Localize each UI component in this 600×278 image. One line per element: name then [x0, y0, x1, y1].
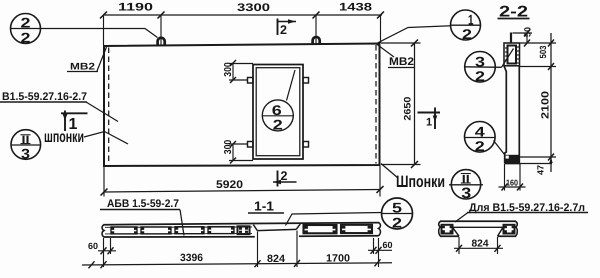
section mark 1 (left) [61, 111, 88, 134]
leader from section to balloon 5/2 [286, 213, 382, 226]
right end cap [516, 221, 518, 236]
svg-text:шпонки: шпонки [44, 129, 84, 146]
dimension 160 [499, 164, 526, 191]
svg-text:5920: 5920 [216, 179, 243, 191]
door recess right slant [296, 224, 300, 230]
svg-text:3396: 3396 [180, 252, 203, 264]
embedded detail bottom [505, 155, 520, 164]
embedded detail top (MV2) [504, 43, 520, 66]
door recess bottom (strip) [257, 229, 296, 230]
svg-text:50: 50 [523, 27, 533, 37]
right slant [498, 227, 504, 236]
left slant [453, 227, 460, 236]
dimension 5920 bottom [101, 166, 384, 197]
svg-text:2: 2 [273, 117, 283, 133]
loop pin top [510, 33, 512, 44]
svg-text:300: 300 [223, 62, 234, 77]
dimension 60 left [88, 238, 116, 267]
svg-text:1-1: 1-1 [254, 199, 274, 214]
right end cap [379, 223, 381, 236]
section mark 2 (bottom) [273, 169, 297, 187]
svg-text:503: 503 [538, 46, 548, 59]
svg-text:2: 2 [392, 215, 402, 231]
void cell 2 [141, 227, 171, 234]
embedded tab top-right [303, 78, 309, 84]
section mark 2 (top) [278, 19, 297, 38]
svg-text:1190: 1190 [118, 2, 153, 14]
svg-text:4: 4 [475, 123, 485, 139]
section 2-2 bar body [504, 66, 520, 164]
void cell 7 (right segment) [341, 225, 372, 233]
tick marks [100, 12, 107, 19]
right vertical dimension chain 503/2100/47 [520, 33, 556, 175]
svg-text:Шпонки: Шпонки [396, 173, 445, 191]
void cell 5 (solid end) [238, 226, 250, 234]
detail body [439, 221, 518, 236]
balloon 6/2 in opening [262, 100, 294, 133]
leader from panel corner to balloon 1/2 [377, 26, 452, 44]
svg-text:2: 2 [462, 26, 472, 42]
extension line right [380, 15, 382, 43]
left segment bottom [104, 236, 255, 238]
extension line loop2 [315, 15, 317, 45]
svg-text:3: 3 [21, 146, 30, 162]
left end cap [102, 225, 104, 237]
label MB2 right [377, 44, 416, 68]
svg-text:824: 824 [267, 253, 285, 265]
embedded tab top-left [248, 78, 254, 84]
balloon 5/2 [382, 198, 413, 231]
label Dlya B1.5-59.27.16-2.7l [455, 202, 588, 222]
svg-text:2: 2 [21, 15, 31, 31]
svg-text:3: 3 [461, 185, 471, 202]
void cell 3 [175, 227, 204, 234]
dimension 300 top [223, 60, 253, 83]
balloon 3/2 [465, 52, 502, 84]
svg-text:47: 47 [536, 165, 546, 175]
dimension 300 bottom [223, 139, 253, 163]
balloon II/3 left [11, 130, 41, 162]
top face line [104, 223, 380, 225]
section mark 1 (right) [418, 108, 441, 130]
dimension 60 right [368, 238, 393, 267]
left end cap [439, 221, 441, 236]
dashed line inside right edge [375, 45, 377, 164]
svg-text:2100: 2100 [540, 91, 552, 119]
dimension 2650 right [381, 40, 421, 169]
right cell [504, 225, 515, 234]
void cell 1 [111, 227, 137, 234]
svg-text:3: 3 [475, 53, 485, 69]
void cell 6 (right segment) [304, 225, 337, 233]
dashed line inside left edge [108, 48, 110, 165]
top dimension line [100, 2, 384, 46]
balloon 1/2 top-right [451, 10, 481, 42]
svg-text:3300: 3300 [237, 2, 270, 14]
right segment bottom [299, 235, 379, 238]
left cell [442, 225, 453, 234]
svg-text:В1.5-59.27.16-2.7: В1.5-59.27.16-2.7 [2, 91, 87, 103]
section 1-1 body [102, 223, 380, 237]
inner flange lines left [105, 226, 252, 228]
panel outline (main elevation) [104, 44, 380, 167]
extension line loop1 [160, 15, 162, 45]
leader from balloon 2/2 to lifting loop 1 [41, 29, 158, 38]
svg-text:МВ2: МВ2 [389, 56, 414, 68]
balloon 2/2 top-left [11, 14, 41, 46]
title 2-2 [498, 4, 530, 21]
lifting loop 2 [313, 37, 320, 45]
leader from balloon 3/2 to top detail [502, 49, 514, 68]
embedded tab bottom-right [303, 142, 309, 148]
title 1-1 [248, 199, 284, 214]
balloon II/3 right [449, 170, 483, 202]
svg-text:2: 2 [475, 68, 485, 84]
svg-text:1438: 1438 [339, 2, 372, 14]
leader from balloon 4/2 to bottom detail [494, 141, 505, 155]
dimension 50 (pin) [513, 27, 533, 47]
svg-text:2: 2 [475, 138, 485, 154]
svg-text:60: 60 [383, 240, 393, 250]
lifting loop 1 [158, 38, 165, 46]
void cell 4 [208, 227, 234, 234]
door recess left slant [253, 225, 257, 231]
svg-text:2: 2 [281, 169, 288, 183]
dimension 824 (detail) [454, 237, 503, 254]
svg-text:5: 5 [392, 200, 402, 216]
svg-text:824: 824 [472, 239, 489, 250]
svg-text:2: 2 [280, 23, 287, 37]
label shponki left [44, 129, 128, 146]
svg-text:1700: 1700 [326, 253, 350, 265]
svg-text:6: 6 [272, 102, 282, 118]
svg-text:1: 1 [426, 117, 432, 129]
door opening [248, 65, 309, 160]
label MB2 left [67, 47, 107, 73]
strip bottom [453, 226, 504, 228]
embedded tab bottom-left [248, 142, 254, 148]
svg-text:60: 60 [88, 241, 98, 251]
svg-text:2: 2 [21, 30, 31, 46]
svg-text:АБВ 1.5-59-2.7: АБВ 1.5-59-2.7 [107, 198, 179, 210]
leader from opening corner to balloon 6/2 [287, 70, 296, 101]
label ABV 1.5-59-2.7 [100, 198, 184, 236]
svg-text:300: 300 [223, 139, 234, 154]
label B1.5-59.27.16-2.7 left [0, 91, 118, 122]
balloon 4/2 [465, 122, 496, 155]
svg-text:160: 160 [506, 178, 518, 188]
extension line left [103, 15, 105, 45]
svg-text:2650: 2650 [403, 97, 414, 121]
label Shponki right [381, 164, 445, 192]
bottom dimension row 3396/824/1700 [82, 231, 392, 269]
